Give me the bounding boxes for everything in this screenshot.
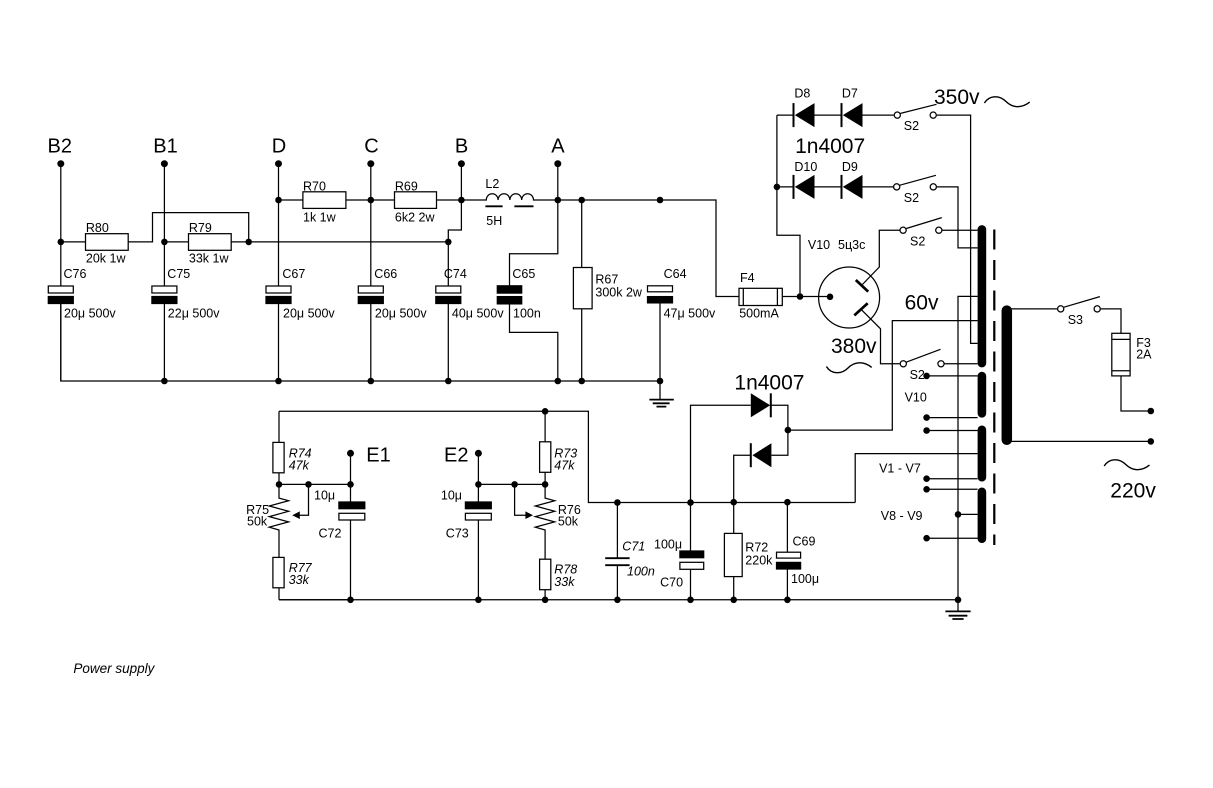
svg-text:6k2 2w: 6k2 2w — [395, 211, 436, 225]
node R73 top — [542, 408, 549, 415]
potentiometer R76 — [535, 484, 554, 559]
svg-text:47μ 500v: 47μ 500v — [664, 306, 716, 320]
node D10 row junction — [774, 184, 781, 191]
switch S2 row2 — [894, 184, 900, 190]
svg-text:22μ 500v: 22μ 500v — [168, 306, 220, 320]
wire E1 down — [350, 453, 352, 502]
wire V1-V7 center tap to bias network — [855, 454, 977, 503]
node diode pair junction — [785, 427, 792, 434]
svg-text:C71: C71 — [622, 539, 645, 553]
svg-text:C74: C74 — [444, 267, 467, 281]
wire B jog down to C74 — [448, 200, 461, 286]
wire D vertical to C67 — [278, 164, 280, 286]
diode D7 — [841, 103, 843, 127]
wire B2 down to C76 — [60, 242, 62, 286]
terminal 220v line 2 — [1148, 438, 1155, 445]
R76 wiper arrow — [511, 481, 518, 488]
capacitor C72 — [339, 502, 365, 509]
svg-text:100n: 100n — [513, 306, 541, 320]
wire junction to cathode — [800, 296, 830, 298]
wire D10 row — [777, 186, 893, 188]
tube V10 — [819, 267, 880, 328]
capacitor C69 — [786, 502, 788, 552]
node C70 top — [687, 499, 694, 506]
capacitor C67 — [266, 286, 291, 293]
squiggle 380v — [826, 363, 871, 373]
svg-text:1n4007: 1n4007 — [795, 135, 865, 158]
terminal V10 heater top — [923, 373, 930, 380]
svg-text:R80: R80 — [86, 221, 109, 235]
resistor R72 — [733, 502, 735, 533]
resistor R77 — [273, 557, 284, 587]
node B1/R79 junction — [161, 239, 168, 246]
wire tube bottom plate to S2 row4 — [861, 309, 900, 364]
diode D10 — [793, 175, 795, 199]
svg-text:V10: V10 — [808, 238, 830, 252]
node R79 right junction — [245, 239, 252, 246]
wire 60v tap to ground line — [958, 296, 978, 599]
wire diode-pair junction to winding tap 380 — [788, 321, 978, 431]
resistor R69 — [371, 199, 395, 201]
wire diode string left riser — [777, 115, 800, 296]
ground — [659, 381, 661, 400]
transformer winding bar 1 — [978, 229, 987, 363]
node D main-rail junction — [275, 197, 282, 204]
terminal 220v line 1 — [1148, 408, 1155, 415]
svg-text:220v: 220v — [1110, 480, 1156, 503]
wire E2 down — [477, 453, 479, 502]
wire R69 to B — [437, 199, 462, 201]
wire 220v bottom tap — [1011, 440, 1151, 442]
resistor R73 — [544, 411, 546, 442]
svg-text:L2: L2 — [485, 177, 499, 191]
capacitor C70 — [690, 503, 692, 552]
svg-text:50k: 50k — [247, 514, 268, 528]
node C69 top — [784, 499, 791, 506]
wire R80 right + bridge over R79 — [128, 213, 249, 242]
svg-text:20μ 500v: 20μ 500v — [64, 306, 116, 320]
svg-text:S2: S2 — [904, 191, 919, 205]
squiggle 350v — [984, 97, 1029, 107]
terminal V10 heater bottom — [923, 414, 930, 421]
node E1 junction — [347, 481, 354, 488]
svg-text:C72: C72 — [319, 527, 342, 541]
svg-text:C73: C73 — [446, 527, 469, 541]
svg-text:D8: D8 — [794, 86, 810, 100]
svg-text:D9: D9 — [842, 160, 858, 174]
node C main-rail junction — [368, 197, 375, 204]
svg-text:C70: C70 — [660, 576, 683, 590]
svg-text:1n4007: 1n4007 — [734, 372, 804, 395]
svg-text:100μ: 100μ — [791, 572, 819, 586]
node E1 — [347, 450, 354, 457]
capacitor C74 — [436, 286, 461, 293]
svg-text:40μ 500v: 40μ 500v — [452, 306, 504, 320]
transformer winding bar 2 (V10 heater) — [978, 376, 987, 413]
svg-text:C66: C66 — [374, 267, 397, 281]
diode D8 — [793, 103, 795, 127]
node R67 top junction — [578, 197, 585, 204]
capacitor C75 — [152, 286, 177, 293]
wire bottom bus — [279, 599, 958, 601]
inductor L2 — [461, 194, 557, 200]
capacitor C76 — [48, 286, 73, 293]
node R72 top — [730, 499, 737, 506]
wire B vertical — [460, 164, 462, 200]
svg-text:60v: 60v — [905, 291, 939, 314]
svg-text:100n: 100n — [627, 565, 655, 579]
svg-text:C67: C67 — [282, 267, 305, 281]
wire main rail A to R67 to C64 to F4 corner — [558, 200, 739, 297]
wire bias feed from E-network — [279, 411, 855, 502]
fuse F3 — [1112, 333, 1130, 376]
svg-text:2A: 2A — [1136, 348, 1152, 362]
ground 2 — [957, 600, 959, 612]
node E2 — [475, 450, 482, 457]
svg-text:D10: D10 — [794, 160, 817, 174]
svg-text:S2: S2 — [910, 368, 925, 382]
diode D9 — [841, 175, 843, 199]
R75 wiper arrow — [305, 481, 312, 488]
tube cathode dot — [827, 294, 834, 301]
resistor R80 — [61, 241, 86, 243]
node B main-rail junction — [458, 197, 465, 204]
svg-text:C64: C64 — [664, 267, 687, 281]
wire F4 to tube junction — [782, 296, 800, 298]
switch S2 row4 — [900, 361, 906, 367]
node F4 output junction — [797, 293, 804, 300]
terminal V1-V7 heater top — [923, 427, 930, 434]
fuse F4 — [739, 288, 782, 305]
switch S2 row1 — [894, 112, 900, 118]
tube top plate — [856, 280, 868, 292]
wire bus y=242 to C74 jog — [249, 241, 449, 243]
svg-text:C65: C65 — [512, 267, 535, 281]
svg-text:A: A — [551, 136, 565, 158]
node B2/R80 junction — [58, 239, 65, 246]
diode W2 (bottom, cathode left) — [771, 430, 788, 455]
svg-text:S2: S2 — [910, 234, 925, 248]
node R73/R76 junction — [542, 481, 549, 488]
wire S3 to F3 — [1101, 309, 1121, 333]
wire C70 riser to diode W1 — [691, 405, 751, 502]
svg-text:E1: E1 — [366, 445, 390, 467]
terminal V1-V7 heater bottom — [923, 475, 930, 482]
resistor R67 — [581, 200, 583, 268]
svg-text:B2: B2 — [48, 136, 72, 158]
wire S2 row3 to tube anode — [862, 230, 899, 284]
wire F3 to line terminal — [1121, 376, 1151, 411]
svg-text:V10: V10 — [905, 391, 927, 405]
capacitor C73 — [465, 502, 491, 509]
wire A vertical — [557, 164, 559, 200]
transformer winding bar 3 (V1-V7 heater) — [978, 430, 987, 477]
svg-text:R70: R70 — [303, 179, 326, 193]
svg-text:20μ 500v: 20μ 500v — [283, 306, 335, 320]
svg-text:R79: R79 — [189, 221, 212, 235]
transformer primary bar (220v) — [1002, 311, 1013, 440]
wire B1 vertical — [163, 164, 165, 286]
svg-text:47k: 47k — [289, 459, 310, 473]
svg-text:C75: C75 — [167, 267, 190, 281]
svg-text:V1 - V7: V1 - V7 — [879, 461, 921, 475]
capacitor C66 — [358, 286, 383, 293]
node C71 top — [614, 499, 621, 506]
svg-text:D: D — [272, 136, 286, 158]
wire R79 right to junction — [231, 241, 249, 243]
node E2 junction — [475, 481, 482, 488]
switch S2 row3 — [900, 227, 906, 233]
wire A jog to C65 top — [510, 200, 558, 286]
svg-text:5H: 5H — [486, 214, 502, 228]
svg-text:500mA: 500mA — [739, 306, 779, 320]
svg-text:50k: 50k — [558, 514, 579, 528]
svg-text:350v: 350v — [934, 86, 980, 109]
svg-text:C69: C69 — [793, 535, 816, 549]
svg-text:1k 1w: 1k 1w — [303, 211, 337, 225]
wire S2 row1 to winding tap — [937, 115, 978, 343]
potentiometer R75 — [269, 484, 288, 557]
wire S2 row3 to winding tap — [942, 229, 977, 231]
svg-text:10μ: 10μ — [314, 489, 335, 503]
node A main-rail junction — [555, 197, 562, 204]
transformer core (dashed) — [993, 230, 995, 546]
node V8-V9 center tap on ground line — [955, 511, 962, 518]
transformer winding bar 4 (V8-V9 heater) — [978, 492, 987, 539]
terminal V8-V9 heater bottom — [923, 535, 930, 542]
node bus2 dots — [347, 597, 354, 604]
wire D8 row — [777, 114, 894, 116]
resistor R70 — [279, 199, 303, 201]
node bus dots — [161, 378, 168, 385]
resistor R74 — [278, 411, 280, 442]
svg-text:B: B — [455, 136, 468, 158]
svg-text:S3: S3 — [1068, 313, 1083, 327]
wire top ground bus — [61, 304, 660, 382]
svg-text:C: C — [364, 136, 378, 158]
wire B2 vertical to R80 row — [60, 164, 62, 242]
svg-text:D7: D7 — [842, 86, 858, 100]
wire C vertical to C66 — [370, 164, 372, 286]
svg-text:V8 - V9: V8 - V9 — [881, 509, 923, 523]
squiggle 220v — [1104, 460, 1149, 470]
resistor R79 — [164, 241, 188, 243]
wire E2 row — [478, 483, 545, 485]
svg-text:380v: 380v — [831, 335, 877, 358]
svg-text:B1: B1 — [153, 136, 177, 158]
wire S2 row2 to winding tap — [937, 187, 978, 248]
svg-text:C76: C76 — [64, 267, 87, 281]
svg-text:S2: S2 — [904, 119, 919, 133]
svg-text:R69: R69 — [395, 179, 418, 193]
svg-text:300k 2w: 300k 2w — [595, 285, 643, 299]
svg-text:10μ: 10μ — [441, 489, 462, 503]
node C74 top junction — [445, 239, 452, 246]
svg-text:E2: E2 — [444, 445, 468, 467]
wire R70 to C — [346, 199, 371, 201]
svg-text:33k: 33k — [289, 573, 310, 587]
wire 220v top tap to S3 — [1011, 308, 1057, 310]
switch S3 — [1058, 306, 1064, 312]
svg-text:33k 1w: 33k 1w — [189, 251, 230, 265]
capacitor C64 — [648, 286, 673, 292]
svg-text:100μ: 100μ — [654, 537, 682, 551]
node ground2 junction — [955, 597, 962, 604]
node R74/R75 junction — [276, 481, 283, 488]
svg-text:Power supply: Power supply — [73, 661, 155, 676]
svg-text:F4: F4 — [740, 271, 755, 285]
svg-text:47k: 47k — [554, 459, 575, 473]
terminal V8-V9 heater top — [923, 486, 930, 493]
svg-text:220k: 220k — [745, 553, 773, 567]
svg-text:20μ 500v: 20μ 500v — [375, 306, 427, 320]
node C64 top junction — [657, 197, 664, 204]
wire E1 row — [279, 483, 351, 485]
svg-text:5ц3c: 5ц3c — [838, 238, 865, 252]
resistor R78 — [540, 559, 551, 590]
svg-text:20k 1w: 20k 1w — [86, 251, 127, 265]
wire S2 row4 to winding bottom — [945, 363, 978, 365]
tube bottom plate — [854, 303, 867, 315]
capacitor C71 — [616, 503, 618, 559]
wire C65 bottom jog to bus — [510, 304, 558, 381]
svg-text:33k: 33k — [554, 575, 575, 589]
diode W1 (top, anode left) — [751, 393, 770, 417]
capacitor C65 — [497, 286, 521, 293]
